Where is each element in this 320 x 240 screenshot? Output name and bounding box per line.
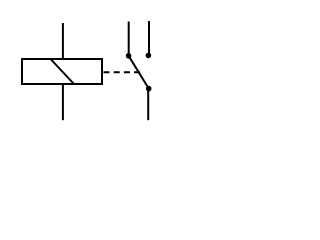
wire: coil top lead (62, 23, 64, 59)
coil diagonal stroke (51, 60, 74, 85)
node: NC contact dot (126, 53, 132, 59)
relay coil K1 (box) (22, 59, 102, 84)
mechanical link (dashed) (104, 71, 141, 73)
wire: NC fixed contact lead (128, 22, 130, 56)
wire: NO fixed contact lead (148, 21, 150, 55)
node: common pole dot (146, 86, 152, 92)
wire: common pole lead (147, 89, 149, 121)
switch lever (pole arm) (129, 56, 149, 89)
node: NO contact dot (146, 53, 152, 59)
wire: coil bottom lead (62, 84, 64, 120)
